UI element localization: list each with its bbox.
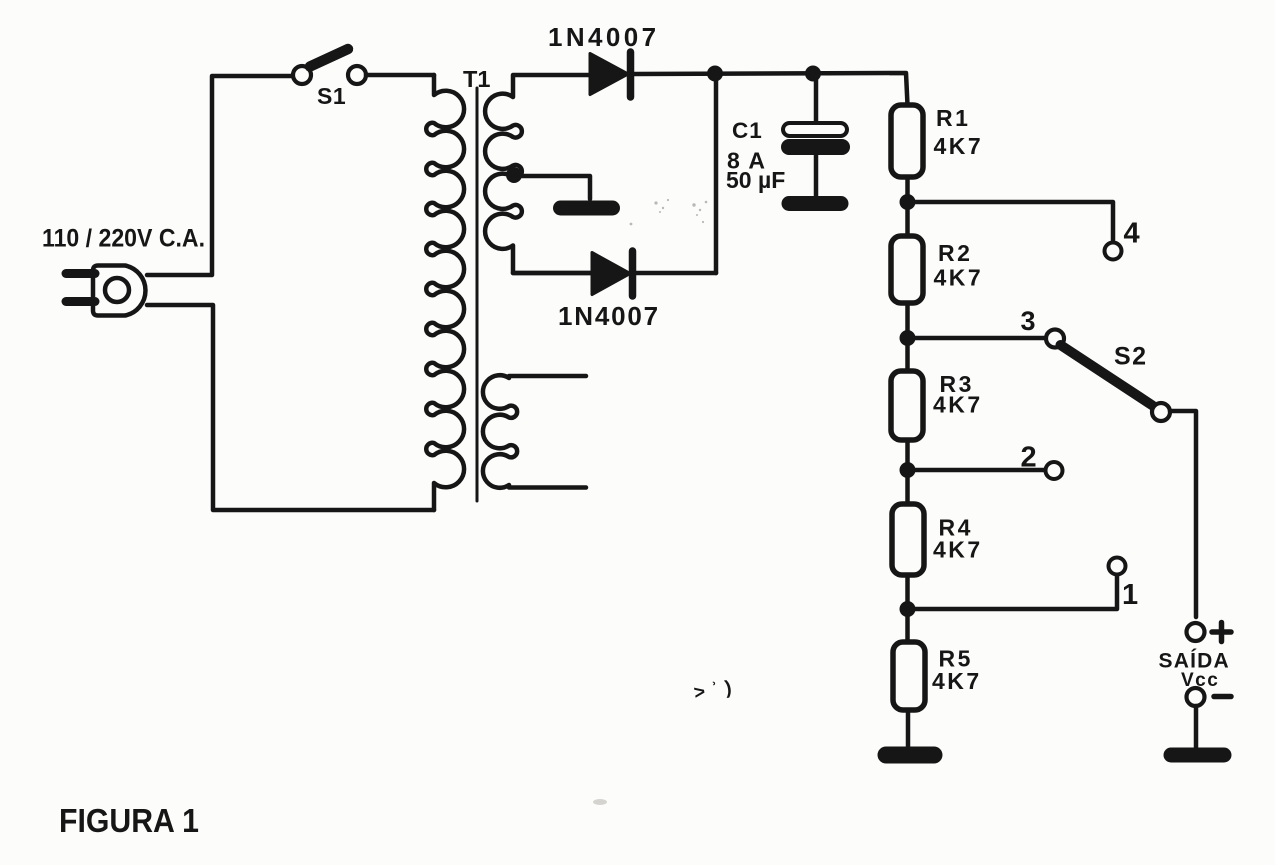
diode D1 (1N4007) triangle: [590, 54, 628, 95]
node junction R4/R5: [900, 601, 916, 617]
svg-text:2: 2: [1021, 442, 1037, 474]
wire center tap to ground: [514, 176, 590, 199]
node junction R2/R3: [900, 330, 916, 346]
svg-text:110 / 220V C.A.: 110 / 220V C.A.: [42, 225, 205, 253]
ground (R5): [886, 747, 934, 764]
terminal 4 contact: [1105, 243, 1122, 260]
wire tap 1: [908, 575, 1118, 609]
wire tap 3: [908, 336, 1047, 341]
node junction B: [805, 66, 821, 82]
capacitor C1 bottom plate (solid): [789, 139, 842, 155]
svg-text:3: 3: [1021, 306, 1036, 336]
wire S2 pole to output +: [1170, 411, 1196, 617]
wire R4 to R5: [905, 575, 910, 642]
node junction A: [707, 66, 723, 82]
svg-text:4K7: 4K7: [934, 133, 984, 159]
wire junction B down to C1: [814, 74, 819, 124]
wire R5 to ground: [906, 710, 911, 750]
switch S1 right contact: [348, 66, 366, 84]
switch S2 lever: [1061, 345, 1153, 406]
diode D2 (1N4007) triangle: [592, 253, 630, 295]
capacitor C1 top plate (outline): [783, 123, 847, 136]
wire R2 to R3: [905, 303, 910, 371]
terminal output - contact: [1187, 688, 1205, 706]
transformer T1 secondary lower winding: [483, 375, 586, 488]
svg-text:S1: S1: [317, 83, 346, 109]
wire secondary bottom to D2: [513, 271, 592, 276]
svg-text:R1: R1: [936, 105, 970, 131]
svg-text:C1: C1: [732, 118, 763, 143]
wire junction A down to D2 rail: [714, 74, 719, 274]
svg-text:4K7: 4K7: [933, 392, 983, 418]
wire output - to ground: [1194, 706, 1199, 750]
resistor R4: [892, 504, 924, 575]
resistor R2: [891, 236, 923, 303]
plug prong upper: [66, 269, 95, 278]
svg-text:R2: R2: [938, 240, 972, 266]
svg-text:FIGURA 1: FIGURA 1: [59, 802, 199, 839]
resistor R5: [893, 642, 925, 710]
wire D2 to junction A column: [636, 271, 716, 276]
wire plug top to S1: [147, 76, 292, 275]
svg-text:1: 1: [1122, 579, 1138, 611]
node junction R3/R4: [900, 462, 916, 478]
terminal output + contact: [1187, 623, 1205, 641]
wire tap 2: [908, 468, 1046, 473]
switch S1 left contact: [293, 66, 311, 84]
svg-text:50 µF: 50 µF: [726, 167, 785, 193]
wire R3 to R4: [905, 440, 910, 504]
diode D2 cathode bar: [629, 251, 637, 296]
label + sign: [1212, 623, 1231, 642]
terminal 2 contact: [1046, 462, 1063, 479]
scan smudge near C1: [630, 199, 708, 226]
wire R1 to R2: [905, 177, 910, 236]
svg-text:1N4007: 1N4007: [558, 301, 660, 331]
svg-text:4K7: 4K7: [933, 537, 983, 563]
svg-text:S2: S2: [1114, 343, 1148, 371]
wire D1 to top rail corner and down to R1: [634, 73, 908, 105]
svg-text:4K7: 4K7: [934, 265, 984, 291]
node center-tap junction dot: [506, 167, 522, 183]
plug prong lower: [66, 297, 95, 306]
svg-text:T1: T1: [463, 66, 490, 92]
switch S2 pole contact: [1152, 403, 1170, 421]
terminal 1 contact: [1109, 558, 1126, 575]
svg-text:4: 4: [1124, 218, 1140, 250]
resistor R3: [891, 371, 923, 440]
transformer T1 secondary upper winding: [485, 75, 592, 273]
wire tap 4: [908, 202, 1114, 243]
wire C1 to ground: [814, 155, 819, 198]
node junction R1/R2: [900, 194, 916, 210]
switch S2 contact 3: [1046, 330, 1064, 348]
transformer T1 core: [476, 88, 479, 501]
svg-text:4K7: 4K7: [932, 668, 982, 694]
transformer T1 primary winding: [426, 75, 464, 510]
ground (output): [1171, 748, 1224, 763]
wire S1 to T1 primary top: [366, 73, 434, 78]
scan smudge near caption: [593, 799, 607, 805]
wire plug bottom to T1 primary bottom: [147, 305, 434, 510]
switch S1 lever: [310, 49, 348, 67]
diode D1 cathode bar: [627, 52, 635, 97]
AC plug P1 body: [93, 266, 145, 316]
label - sign: [1214, 694, 1231, 700]
svg-text:1N4007: 1N4007: [548, 22, 659, 52]
ground (C1): [789, 196, 841, 211]
resistor R1: [891, 105, 923, 177]
ground (center tap): [561, 201, 613, 216]
